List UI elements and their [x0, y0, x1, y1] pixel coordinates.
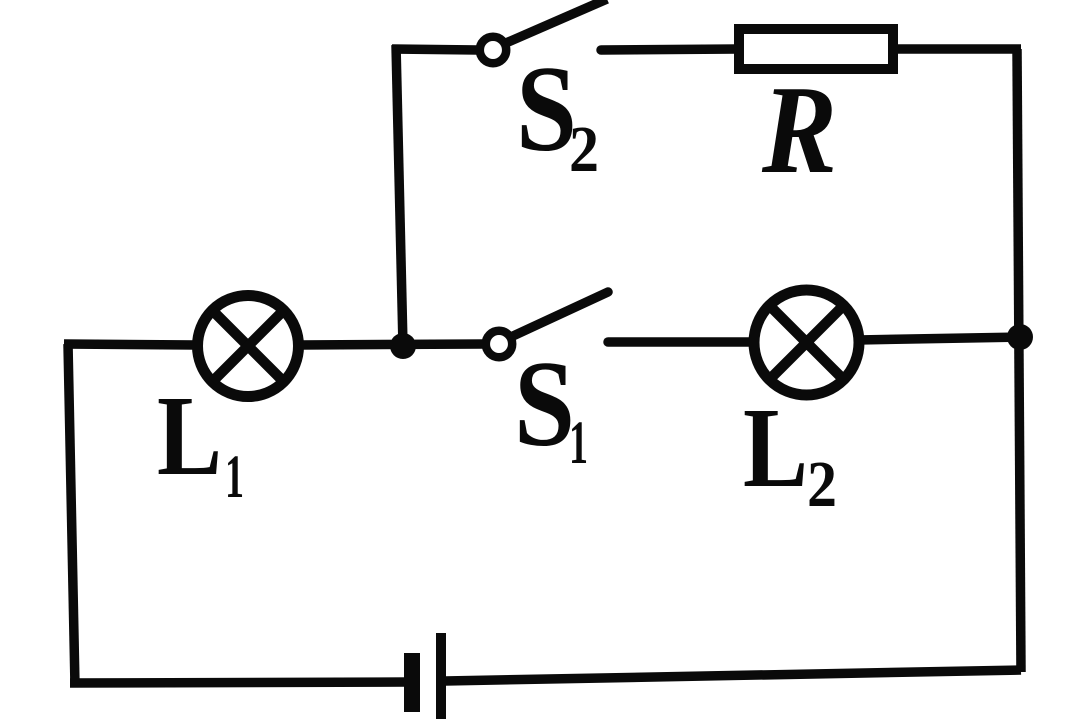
wire S2 left stub [392, 49, 478, 50]
label S1 [514, 335, 588, 477]
wire L2 to right node [858, 337, 1021, 340]
switch S1 [486, 292, 608, 357]
wire bottom left [70, 682, 408, 683]
svg-text:R: R [761, 61, 837, 200]
node junction left [390, 333, 416, 359]
wire L1 to S1 [300, 344, 484, 345]
wire right vertical [1017, 49, 1021, 672]
wire L1 left [64, 344, 196, 345]
label L1 [157, 372, 244, 511]
switch S2 [480, 0, 607, 63]
label L2 [743, 384, 837, 521]
wire S1 to L2 [608, 337, 754, 347]
battery B1 [404, 633, 446, 719]
svg-text:1: 1 [569, 410, 588, 477]
node junction right [1007, 324, 1033, 350]
wire middle vertical [396, 45, 403, 346]
svg-text:S: S [514, 335, 575, 472]
svg-text:L: L [157, 372, 222, 499]
resistor R [739, 29, 893, 69]
svg-text:L: L [743, 384, 808, 511]
wire top right (R to corner) [896, 44, 1021, 54]
lamp L1 [198, 296, 299, 397]
wire S2 to R [601, 49, 738, 50]
svg-text:2: 2 [569, 113, 599, 186]
svg-text:S: S [516, 40, 577, 177]
svg-text:2: 2 [807, 448, 837, 521]
wire left vertical [68, 344, 75, 686]
svg-text:1: 1 [225, 444, 244, 511]
lamp L2 [754, 290, 859, 395]
wire bottom right [445, 670, 1021, 681]
label S2 [516, 40, 599, 186]
